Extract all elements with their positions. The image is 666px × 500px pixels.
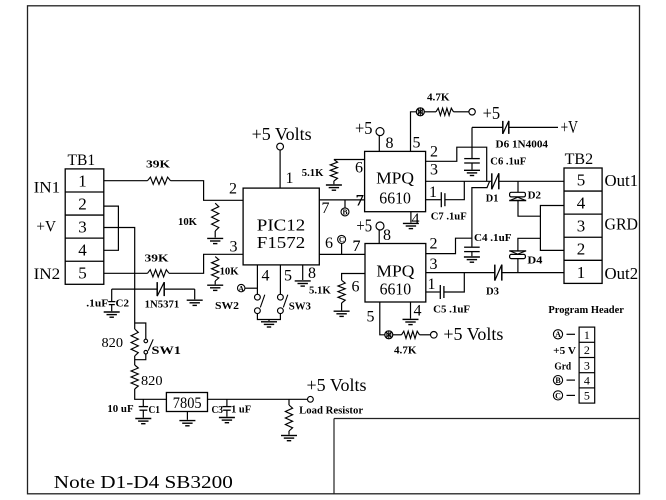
svg-text:4: 4	[577, 194, 586, 213]
svg-text:3: 3	[78, 218, 87, 237]
svg-text:A: A	[555, 330, 561, 339]
svg-text:6610: 6610	[380, 280, 412, 299]
svg-text:TB1: TB1	[68, 152, 96, 169]
svg-text:.1uF: .1uF	[86, 298, 108, 310]
svg-text:4.7K: 4.7K	[427, 92, 450, 104]
svg-text:5: 5	[78, 264, 87, 283]
svg-text:5: 5	[577, 170, 586, 189]
svg-text:5.1K: 5.1K	[309, 284, 331, 296]
svg-text:SW1: SW1	[152, 343, 181, 357]
svg-text:8: 8	[386, 135, 394, 152]
svg-text:C6 .1uF: C6 .1uF	[490, 156, 526, 168]
svg-text:MPQ: MPQ	[376, 262, 414, 281]
svg-text:D2: D2	[528, 190, 542, 202]
svg-text:GRD: GRD	[605, 215, 639, 234]
svg-text:A: A	[238, 284, 244, 293]
svg-text:6: 6	[352, 279, 360, 296]
svg-text:3: 3	[430, 161, 438, 178]
svg-text:B: B	[555, 376, 561, 385]
svg-text:C4 .1uF: C4 .1uF	[474, 232, 512, 244]
svg-text:1: 1	[286, 170, 294, 187]
svg-text:5.1K: 5.1K	[302, 167, 324, 179]
svg-text:5: 5	[584, 389, 590, 403]
svg-text:10K: 10K	[178, 216, 197, 228]
svg-text:Out2: Out2	[605, 264, 639, 283]
svg-text:1: 1	[428, 276, 436, 293]
svg-text:IN1: IN1	[34, 179, 61, 196]
svg-text:C: C	[555, 391, 561, 400]
svg-text:3: 3	[584, 358, 590, 372]
svg-text:Grd: Grd	[554, 361, 571, 373]
svg-text:D3: D3	[486, 286, 499, 298]
svg-text:7805: 7805	[173, 395, 202, 412]
svg-text:7: 7	[322, 200, 330, 217]
svg-text:Note D1-D4 SB3200: Note D1-D4 SB3200	[54, 472, 233, 492]
svg-text:SW3: SW3	[289, 301, 312, 313]
svg-text:F1572: F1572	[257, 233, 305, 252]
svg-text:10K: 10K	[220, 266, 239, 278]
svg-text:+5 Volts: +5 Volts	[252, 124, 312, 144]
svg-text:4: 4	[78, 241, 87, 260]
svg-text:Program Header: Program Header	[548, 304, 624, 316]
svg-text:+5 Volts: +5 Volts	[443, 324, 503, 344]
svg-text:6: 6	[325, 235, 333, 252]
svg-text:39K: 39K	[146, 158, 171, 170]
svg-text:C3: C3	[212, 404, 224, 416]
svg-text:SW2: SW2	[215, 300, 240, 312]
svg-text:IN2: IN2	[34, 266, 61, 283]
svg-text:C1: C1	[149, 404, 161, 416]
svg-text:Out1: Out1	[605, 171, 639, 190]
svg-text:+5: +5	[355, 118, 373, 138]
svg-text:39K: 39K	[145, 253, 170, 265]
svg-text:1: 1	[78, 171, 87, 190]
svg-text:820: 820	[102, 336, 124, 351]
svg-text:5: 5	[367, 309, 375, 326]
svg-text:8: 8	[383, 227, 391, 244]
svg-text:C: C	[339, 235, 344, 244]
svg-text:+5: +5	[356, 215, 372, 235]
svg-text:5: 5	[413, 135, 421, 152]
svg-text:820: 820	[141, 374, 163, 389]
svg-text:1N5371: 1N5371	[145, 299, 180, 311]
svg-text:2: 2	[78, 194, 87, 213]
svg-text:C7 .1uF: C7 .1uF	[431, 211, 467, 223]
svg-text:C2: C2	[116, 298, 130, 310]
svg-text:PIC12: PIC12	[257, 216, 305, 235]
svg-text:2: 2	[577, 240, 586, 259]
svg-text:+V: +V	[36, 219, 56, 236]
svg-text:+5 Volts: +5 Volts	[307, 375, 367, 395]
svg-text:3: 3	[577, 217, 586, 236]
svg-text:7: 7	[356, 192, 364, 209]
svg-text:4: 4	[414, 302, 422, 319]
svg-text:D1: D1	[486, 193, 499, 205]
svg-text:3: 3	[230, 238, 238, 255]
svg-text:10 uF: 10 uF	[107, 403, 133, 415]
svg-text:2: 2	[584, 343, 590, 357]
svg-text:2: 2	[430, 235, 438, 252]
svg-text:1: 1	[577, 263, 586, 282]
svg-text:4.7K: 4.7K	[394, 345, 417, 357]
svg-text:+5 V: +5 V	[553, 345, 576, 357]
svg-text:5: 5	[284, 268, 292, 285]
svg-text:1 uF: 1 uF	[231, 404, 251, 416]
svg-text:D6 1N4004: D6 1N4004	[496, 139, 549, 151]
svg-text:1: 1	[584, 328, 590, 342]
svg-text:7: 7	[353, 238, 361, 255]
svg-text:MPQ: MPQ	[376, 169, 414, 188]
svg-text:+V: +V	[561, 117, 579, 137]
svg-text:Load Resistor: Load Resistor	[299, 405, 363, 417]
svg-text:2: 2	[229, 181, 237, 198]
svg-text:4: 4	[262, 268, 270, 285]
svg-text:+5: +5	[483, 103, 501, 123]
svg-text:6: 6	[355, 160, 363, 177]
svg-text:C5 .1uF: C5 .1uF	[433, 304, 470, 316]
svg-text:2: 2	[430, 143, 438, 160]
svg-text:8: 8	[308, 265, 316, 282]
svg-text:6610: 6610	[379, 189, 411, 208]
svg-text:1: 1	[429, 184, 437, 201]
svg-text:TB2: TB2	[565, 151, 594, 168]
svg-text:D4: D4	[527, 255, 543, 267]
svg-text:4: 4	[584, 374, 590, 388]
svg-text:B: B	[342, 208, 347, 217]
svg-text:3: 3	[430, 256, 438, 273]
